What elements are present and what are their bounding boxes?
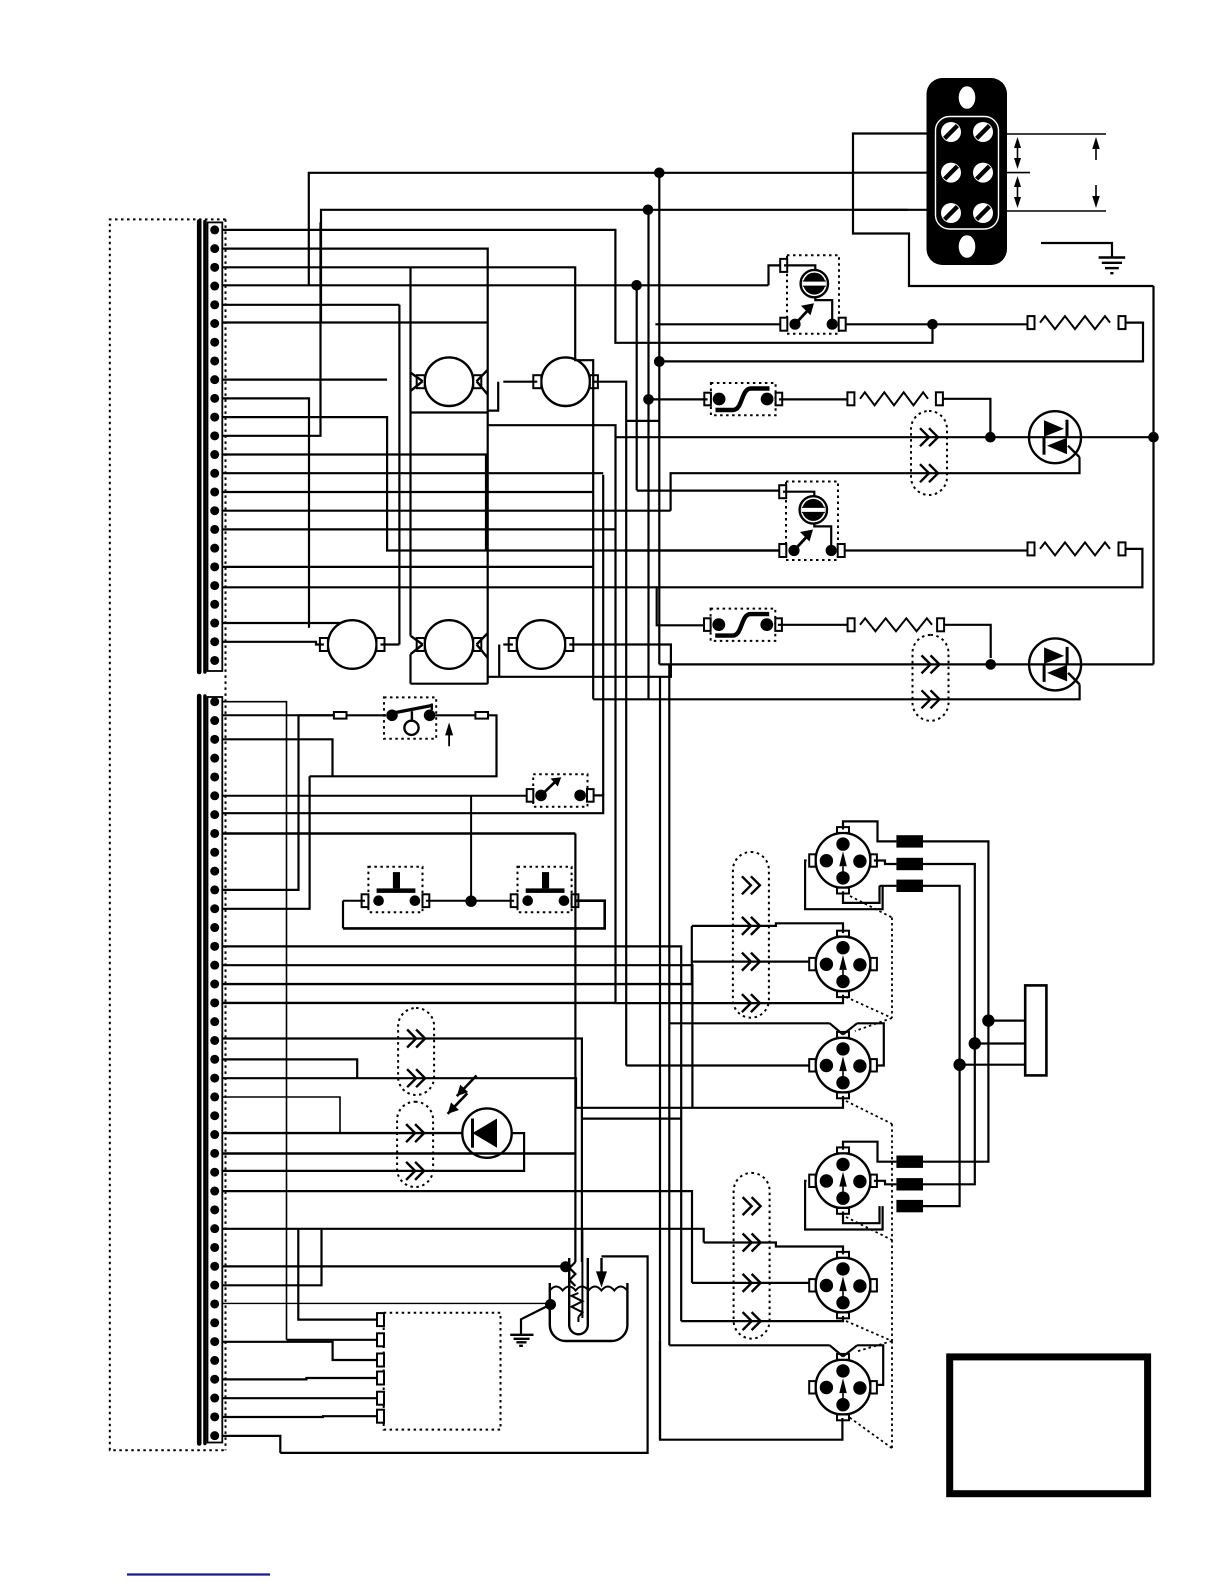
junction dot B1 output — [927, 319, 938, 330]
wire LED left — [222, 1132, 462, 1134]
valve Y4 — [809, 1147, 877, 1213]
dimension arrows between terminals — [1014, 137, 1021, 208]
wire Y1 left loop — [805, 861, 883, 910]
triac Q2 (lower) — [1029, 638, 1081, 690]
wire pin6 (N feed) — [222, 210, 908, 323]
wire Q2 gate return — [593, 684, 1079, 699]
junction dot sump feed — [560, 1261, 571, 1272]
wire Y3 top fan — [669, 1023, 884, 1065]
junction dot busbar 1 — [982, 1014, 994, 1026]
chokes L4-L6 at Y4 — [896, 1156, 923, 1213]
wire L2 right — [923, 864, 975, 1044]
wire q27 (to Y5 left) — [222, 1191, 692, 1283]
flow switch S2 — [527, 774, 594, 807]
wire q11 (door switch feed) — [222, 715, 334, 890]
wire M4 left fan — [411, 636, 423, 684]
wire q40 — [222, 1436, 280, 1453]
wire M5 right loop — [488, 645, 671, 677]
wire S3 left — [343, 901, 365, 929]
resistor R4 — [848, 618, 991, 658]
connector strip P2 (control board edge connector, lower) — [199, 696, 222, 1444]
wire pin1 (to thermal cutout F2 loop) — [222, 230, 932, 343]
control module A1 — [377, 1313, 501, 1430]
connector X5 (valve group 1) — [733, 852, 769, 1018]
wire S2 right loop — [222, 795, 603, 813]
wire pin3 — [222, 267, 593, 699]
wire pin11 (to B2) — [222, 417, 779, 550]
wire q14 (loop to X4 area) — [222, 946, 681, 1321]
wire M5 left — [499, 645, 513, 677]
wire sump sensor — [222, 1302, 550, 1304]
valve Y1 — [809, 827, 877, 893]
wire pin4 (L feed) — [222, 173, 853, 285]
wire junction riser — [470, 796, 472, 901]
wire sump feed — [560, 1265, 566, 1267]
wire p3 drop — [222, 739, 332, 776]
wire q1 — [222, 702, 286, 1340]
wire q17 — [222, 1002, 615, 1004]
wire Y4 right to choke L5 — [874, 1181, 897, 1185]
wire q20 jog — [222, 1059, 357, 1078]
junction dot R1 return2 — [654, 356, 665, 367]
ground at sump — [510, 1305, 550, 1346]
wire LED right loop — [434, 1133, 524, 1171]
junction dot on L feed — [654, 168, 665, 179]
resistor R1 — [659, 316, 1143, 361]
wire M3 left — [222, 642, 324, 645]
wire pin9 — [222, 379, 387, 381]
wire q25 — [222, 1152, 575, 1154]
terminal block TB1 (power connector) — [927, 78, 1008, 265]
trunk x659 — [658, 173, 660, 362]
wire Y5 bottom — [681, 1316, 843, 1321]
wire pin5 — [222, 304, 399, 306]
wire M1 left fan — [411, 373, 423, 391]
wire M4 loop bottom — [411, 683, 488, 685]
wire M2 right — [594, 382, 659, 1066]
wire S3-S4 link — [426, 900, 514, 902]
strip P1 pins — [210, 225, 219, 665]
motor M1 — [417, 357, 482, 406]
trunk x575.4 — [574, 834, 576, 1263]
wire Y3 bottom — [576, 1096, 843, 1108]
wire pin13 — [222, 455, 486, 551]
wire M3 right — [381, 643, 400, 645]
wire pin22 — [222, 622, 341, 624]
wire to F1 left — [649, 398, 708, 400]
LED D1 arrows (photo sensor) — [448, 1076, 477, 1114]
wire q22 (X4 feed) — [222, 1097, 340, 1133]
junction dot F1 input — [643, 394, 654, 405]
junction dot Q1 anode — [985, 432, 996, 443]
connector X3 (left, small) — [398, 1008, 434, 1095]
motor M3 — [320, 620, 385, 669]
triac Q1 (upper) — [1029, 411, 1081, 463]
junction dot sump ground — [545, 1299, 556, 1310]
trunk pin3 riser through M1 to M4 — [409, 267, 411, 636]
motor M2 — [533, 357, 598, 406]
wire Y3 left — [626, 1064, 809, 1066]
motor M5 — [509, 620, 574, 669]
junction dot on N feed — [643, 205, 654, 216]
trunk x659 lower — [658, 362, 660, 665]
wire Y6 top fan — [669, 1345, 883, 1385]
wire F2 to R4 — [778, 624, 848, 626]
measurement stub lines — [1007, 134, 1106, 211]
trunk x582 — [581, 1119, 583, 1262]
wire pin2 — [222, 249, 615, 684]
valve Y5 — [809, 1252, 877, 1318]
wire Y1 bottom loop — [843, 886, 880, 903]
resistor R3 — [847, 392, 990, 437]
dotted valve group marker 1 — [846, 896, 892, 1240]
wire p12 riser — [222, 776, 309, 909]
legend box — [950, 1357, 1148, 1494]
wire pin17 — [222, 528, 615, 530]
module terminal wires — [222, 1229, 377, 1417]
wire M4 right fan — [477, 633, 488, 658]
heater R5 in sump — [550, 1230, 628, 1341]
wire q15 (to Y3) — [222, 965, 692, 1108]
wire Y1 top to choke L1 — [843, 821, 896, 841]
wire: TB1 bottom terminal feed (N) — [853, 209, 927, 211]
wire Y4 bottom loop — [843, 1206, 880, 1223]
junction dot on B1 feed — [631, 280, 642, 291]
trunk x669.3 — [668, 664, 670, 1345]
junction dot busbar 2 — [969, 1037, 981, 1049]
wire Y4 left loop — [805, 1181, 883, 1230]
motor M4 — [417, 620, 482, 669]
wire B1 left contact — [655, 323, 780, 325]
pressure switch B1 (upper) — [780, 255, 846, 334]
fill arrow into sump — [280, 1256, 647, 1453]
wire pin10 — [222, 398, 309, 627]
valve Y3 — [809, 1032, 877, 1098]
trunk x636.7 (from L feed dot) — [636, 285, 638, 490]
dimension arrows overall — [1092, 137, 1100, 208]
wire to B1 top terminal — [769, 265, 781, 285]
busbar J1 — [1025, 985, 1046, 1075]
junction dot right trunk Q1 — [1148, 432, 1159, 443]
junction dot busbar 3 — [953, 1059, 965, 1071]
wire q31 (sump feed) — [222, 1265, 565, 1267]
wire choke L3 row — [880, 886, 960, 1065]
wire S1 right loop — [310, 715, 497, 776]
wire q8 (to sump) — [222, 832, 575, 834]
wire q29 (to Y5 top) — [222, 1229, 703, 1243]
wire B1 right contact to resistor R1 — [846, 323, 1029, 325]
wire Y4 top to choke L4 — [843, 1142, 896, 1162]
thermal cutout F1 — [704, 383, 782, 415]
thermal cutout F2 — [704, 609, 782, 641]
wire q19 (X3 row) — [222, 1039, 582, 1119]
wire M1 right fan — [477, 370, 488, 395]
trunk x660 — [659, 677, 661, 1440]
wire pin15 — [222, 491, 593, 493]
junction dot Q2 anode — [985, 659, 996, 670]
junction dot S3/S4 — [465, 896, 476, 907]
ground (chassis earth) — [1041, 243, 1125, 273]
wire Y2 bottom — [616, 995, 844, 1003]
trunk x648 — [647, 210, 649, 700]
busbar feed wires — [960, 1021, 1026, 1065]
wire S2 left — [222, 795, 526, 797]
wire M1 loop bottom — [411, 411, 488, 413]
connector strip P1 (control board edge connector, upper) — [199, 221, 222, 672]
LED D1 — [462, 1108, 511, 1157]
trunk x399.4 — [398, 305, 400, 645]
wire pin12 riser — [222, 222, 320, 435]
junction dot R1 return — [654, 356, 665, 367]
chokes L1-L3 at Y1 — [896, 835, 923, 892]
wire F1 to R3 — [779, 398, 848, 400]
resistor R2 — [657, 542, 1143, 625]
wire q21 (X3 row 2) — [222, 1078, 576, 1108]
wire: TB1 top terminal feed — [853, 134, 1154, 287]
wire S1 left — [222, 714, 386, 716]
pushbutton S3 — [362, 867, 430, 913]
wire q32 — [222, 1229, 321, 1286]
wire L1 right — [923, 841, 988, 1020]
valve Y6 — [809, 1354, 877, 1420]
wire M2 left — [488, 382, 538, 411]
door switch arrow — [445, 722, 453, 746]
right trunk vertical — [1152, 286, 1154, 664]
wire B2 left contact — [624, 549, 780, 551]
wire to B2 top terminal — [637, 490, 780, 492]
wire Y5 left — [692, 1282, 809, 1284]
wire S4 right — [343, 901, 605, 929]
wire Y5 top — [704, 1243, 843, 1255]
pushbutton S4 — [511, 867, 579, 913]
wire bus through Q2 — [659, 663, 1153, 665]
wire B2 right contact to resistor R2 — [845, 549, 1029, 551]
wire bus through Q1 (heater line) — [616, 436, 1154, 438]
wire pin16 — [222, 510, 670, 512]
wire q16 — [222, 983, 692, 985]
wire Y1 right to choke L2 — [874, 861, 897, 865]
wire X4 lower to strip — [222, 1170, 434, 1172]
footer link line — [127, 1573, 270, 1575]
connector X2 (to heater triac 2) — [913, 635, 949, 721]
connector X6 (valve group 2) — [734, 1173, 770, 1339]
valve Y2 — [809, 931, 877, 997]
connector X4 (LED feed) — [397, 1102, 433, 1187]
dotted enclosure around control board connectors — [110, 219, 226, 1450]
trunk wires to valve group 2 — [923, 1021, 988, 1207]
wire pin14 (gate left segment) — [222, 472, 603, 474]
wire Y2 left — [692, 960, 809, 962]
strip P2 pins — [210, 697, 219, 1440]
wire Y6 bottom — [660, 1341, 842, 1440]
trunk x603.2 — [602, 475, 604, 796]
dotted valve group marker 2 — [846, 1217, 892, 1449]
trunk x616 — [614, 437, 616, 1003]
wire Q1 gate return (right) — [671, 457, 1080, 511]
wire pin20 — [222, 586, 656, 588]
door switch S1 — [334, 697, 488, 738]
connector X1 (to heater triac 1) — [911, 411, 947, 495]
pressure switch B2 (lower) — [779, 482, 845, 561]
wire pin19 — [222, 566, 593, 568]
wire: TB1 middle terminal feed (L) — [853, 172, 927, 174]
wire Y2 top — [692, 923, 843, 984]
